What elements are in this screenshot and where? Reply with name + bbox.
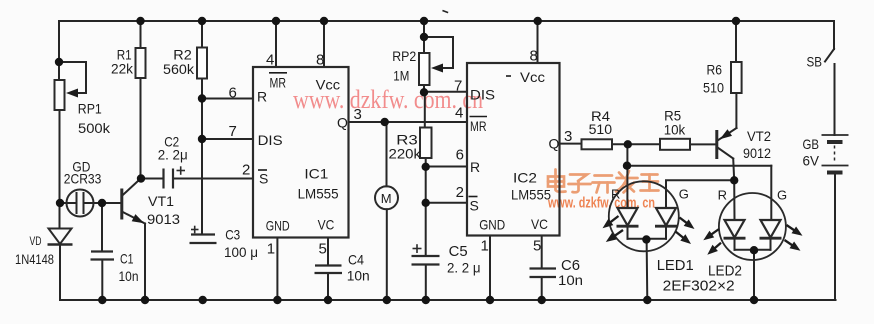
svg-text:500k: 500k bbox=[78, 120, 111, 136]
svg-text:3: 3 bbox=[354, 106, 362, 123]
svg-text:2: 2 bbox=[456, 184, 464, 201]
svg-text:4: 4 bbox=[266, 52, 274, 69]
svg-text:LM555: LM555 bbox=[511, 187, 551, 203]
svg-text:C4: C4 bbox=[348, 252, 364, 268]
svg-text:6: 6 bbox=[456, 147, 464, 164]
svg-text:M: M bbox=[381, 191, 392, 206]
svg-text:GB: GB bbox=[803, 136, 820, 152]
svg-text:VD: VD bbox=[30, 236, 42, 248]
svg-text:SB: SB bbox=[807, 54, 823, 70]
svg-text:S: S bbox=[259, 171, 268, 187]
svg-text:G: G bbox=[679, 187, 689, 202]
svg-text:R: R bbox=[611, 187, 620, 202]
svg-text:510: 510 bbox=[703, 80, 724, 96]
svg-text:1M: 1M bbox=[393, 68, 409, 84]
svg-text:G: G bbox=[777, 188, 787, 203]
svg-text:Vcc: Vcc bbox=[520, 69, 545, 85]
svg-text:2: 2 bbox=[242, 162, 250, 179]
svg-text:R5: R5 bbox=[664, 109, 681, 124]
svg-text:5: 5 bbox=[319, 241, 327, 258]
svg-text:RP2: RP2 bbox=[392, 48, 416, 64]
svg-text:8: 8 bbox=[316, 52, 324, 69]
svg-text:VC: VC bbox=[318, 217, 335, 233]
svg-text:VT1: VT1 bbox=[148, 193, 174, 209]
svg-text:DIS: DIS bbox=[258, 132, 283, 148]
svg-text:Q: Q bbox=[549, 136, 560, 152]
svg-text:GND: GND bbox=[479, 217, 505, 233]
svg-text:www. dzkfw. com. cn: www. dzkfw. com. cn bbox=[547, 195, 655, 212]
svg-text:2. 2μ: 2. 2μ bbox=[158, 147, 188, 163]
svg-text:DIS: DIS bbox=[470, 87, 495, 103]
svg-text:1N4148: 1N4148 bbox=[15, 251, 54, 267]
svg-text:MR: MR bbox=[470, 118, 487, 134]
svg-text:6V: 6V bbox=[803, 153, 820, 169]
svg-text:IC1: IC1 bbox=[304, 166, 328, 182]
svg-text:2EF302×2: 2EF302×2 bbox=[663, 278, 735, 295]
svg-text:10n: 10n bbox=[347, 268, 370, 284]
svg-text:IC2: IC2 bbox=[513, 170, 537, 186]
svg-text:3: 3 bbox=[564, 128, 572, 145]
svg-text:10n: 10n bbox=[119, 268, 139, 284]
svg-text:LED1: LED1 bbox=[657, 257, 694, 274]
svg-text:GND: GND bbox=[266, 218, 290, 234]
svg-text:6: 6 bbox=[229, 85, 237, 102]
svg-text:220k: 220k bbox=[389, 146, 423, 162]
svg-text:100 μ: 100 μ bbox=[224, 244, 258, 260]
svg-text:5: 5 bbox=[533, 238, 541, 255]
svg-text:10n: 10n bbox=[558, 272, 583, 288]
svg-text:9012: 9012 bbox=[743, 145, 771, 161]
svg-text:VC: VC bbox=[531, 216, 548, 232]
svg-text:C1: C1 bbox=[120, 251, 134, 267]
svg-text:S: S bbox=[470, 198, 479, 214]
svg-text:C5: C5 bbox=[449, 243, 468, 260]
svg-text:R: R bbox=[257, 89, 267, 105]
svg-text:LM555: LM555 bbox=[298, 186, 339, 202]
svg-text:1: 1 bbox=[267, 241, 275, 258]
svg-text:4: 4 bbox=[455, 105, 463, 122]
svg-text:R6: R6 bbox=[707, 62, 723, 78]
svg-text:8: 8 bbox=[530, 48, 538, 65]
svg-text:VT2: VT2 bbox=[747, 128, 771, 144]
svg-text:C3: C3 bbox=[225, 227, 240, 243]
svg-text:9013: 9013 bbox=[147, 211, 180, 227]
svg-text:2CR33: 2CR33 bbox=[64, 171, 102, 187]
svg-text:10k: 10k bbox=[664, 123, 686, 138]
svg-text:1: 1 bbox=[481, 238, 489, 255]
svg-text:Vcc: Vcc bbox=[316, 77, 341, 93]
svg-text:RP1: RP1 bbox=[78, 101, 102, 117]
svg-text:510: 510 bbox=[589, 122, 613, 137]
svg-text:7: 7 bbox=[454, 78, 462, 95]
svg-text:MR: MR bbox=[270, 75, 287, 91]
svg-text:Q: Q bbox=[337, 115, 348, 131]
svg-text:R: R bbox=[470, 159, 480, 175]
svg-text:560k: 560k bbox=[163, 61, 195, 77]
svg-text:R: R bbox=[718, 188, 727, 203]
svg-text:2. 2 μ: 2. 2 μ bbox=[447, 260, 481, 276]
svg-text:7: 7 bbox=[229, 123, 237, 140]
svg-text:22k: 22k bbox=[111, 61, 134, 77]
